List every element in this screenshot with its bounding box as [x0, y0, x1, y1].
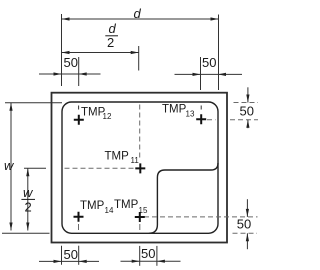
centerline extension from d/2	[138, 46, 140, 71]
svg-text:TMP: TMP	[114, 199, 139, 211]
TMP13 dashed line right	[207, 119, 216, 121]
dimension line d/2	[62, 52, 139, 54]
cross TMP11	[135, 163, 145, 173]
d/2 arrows	[62, 51, 70, 54]
w/2 top extension	[24, 167, 46, 169]
svg-text:11: 11	[131, 156, 140, 165]
right 50 bottom dim line	[246, 199, 248, 217]
svg-text:50: 50	[237, 217, 251, 232]
w/2 dim line	[27, 168, 29, 230]
ext line TMP12 x	[78, 57, 80, 86]
cross TMP15	[135, 212, 145, 222]
svg-text:15: 15	[139, 206, 148, 215]
bottom-center 50 ext lines	[139, 246, 141, 266]
svg-text:13: 13	[186, 110, 195, 119]
svg-text:TMP: TMP	[162, 104, 187, 116]
bottom-left 50 dim line	[39, 260, 99, 262]
TMP15 dashed line across step to right dim	[144, 216, 258, 218]
w bottom extension	[2, 232, 50, 234]
inner rounded rectangle	[62, 102, 218, 233]
cross TMP14	[74, 212, 84, 222]
fraction bar w/2	[21, 198, 35, 200]
svg-text:TMP: TMP	[80, 200, 105, 212]
w dim line	[10, 103, 12, 231]
w arrows	[9, 103, 12, 111]
dim line 50 top-right	[175, 73, 243, 75]
50 top-right arrows	[193, 73, 201, 76]
bottom-left 50 ext lines	[61, 246, 63, 265]
50 top-left arrows (outside pointing in)	[54, 72, 62, 75]
dimension line d	[62, 18, 219, 20]
svg-text:50: 50	[141, 246, 155, 261]
right 50 bottom arrows	[246, 209, 249, 217]
svg-text:50: 50	[240, 104, 254, 119]
bottom-left 50 arrows	[54, 260, 62, 263]
bottom-center 50 arrows	[132, 260, 140, 263]
right 50 top arrows	[246, 95, 249, 103]
left extension line for d/d2/50	[61, 14, 63, 86]
dim line 50 top-left	[39, 73, 101, 75]
outer plate rectangle	[52, 93, 228, 243]
svg-text:2: 2	[25, 200, 32, 215]
fraction bar d/2	[105, 35, 118, 37]
inner-top extension dashed right	[234, 102, 259, 104]
step divider path	[149, 163, 218, 233]
cross TMP13	[196, 114, 206, 124]
svg-text:50: 50	[64, 55, 78, 70]
cross TMP12	[74, 115, 84, 125]
svg-text:50: 50	[202, 55, 216, 70]
svg-text:w: w	[23, 185, 34, 200]
d arrows	[62, 17, 70, 20]
ext line TMP13 x	[200, 57, 202, 90]
inner-bottom extension dashed right	[233, 232, 258, 234]
bottom-center 50 dim line	[121, 260, 181, 262]
w/2 arrows	[26, 168, 29, 176]
vertical centerline dashed below TMP15	[139, 224, 141, 230]
svg-text:14: 14	[105, 206, 114, 215]
horizontal centerline dashed to TMP11	[65, 167, 138, 169]
TMP14 dashed drop line	[78, 224, 80, 230]
svg-text:d: d	[134, 6, 142, 21]
right extension line for d	[218, 15, 220, 91]
tick above TMP12	[78, 106, 80, 110]
svg-text:d: d	[109, 21, 117, 36]
svg-text:TMP: TMP	[105, 151, 130, 163]
vertical centerline dashed (top part)	[139, 105, 141, 160]
svg-text:w: w	[4, 158, 15, 173]
svg-text:2: 2	[107, 35, 114, 50]
svg-text:50: 50	[64, 247, 78, 262]
w top extension	[5, 102, 62, 104]
tick above TMP13	[200, 106, 202, 110]
right 50 top dim line	[247, 87, 249, 102]
svg-text:12: 12	[103, 112, 112, 121]
